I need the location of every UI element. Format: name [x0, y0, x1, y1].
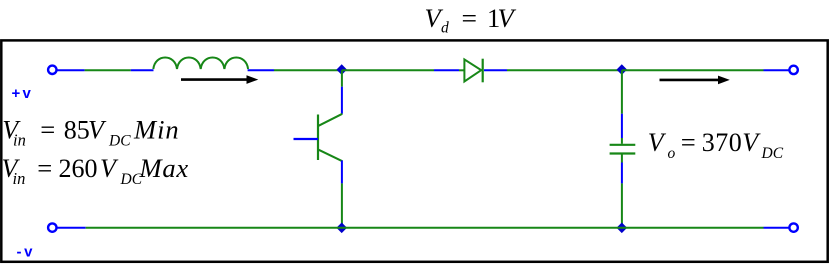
svg-text:Max: Max [139, 153, 190, 183]
inductor L1 [153, 57, 248, 69]
input terminal + (top-left) [48, 66, 56, 74]
output terminal + (top-right) [789, 66, 797, 74]
wire: inductor to node A [248, 69, 342, 71]
svg-text:85: 85 [64, 115, 90, 144]
capacitor C1 [610, 145, 636, 154]
current arrow (input) [181, 75, 258, 84]
output terminal - (bottom-right) [789, 223, 797, 231]
svg-text:-v: -v [17, 243, 36, 260]
svg-text:370: 370 [702, 128, 743, 157]
svg-text:o: o [668, 145, 676, 162]
svg-text:in: in [13, 169, 26, 188]
node A junction (top of transistor) [336, 64, 347, 75]
wire: node A down to transistor collector [341, 70, 343, 114]
wire: node A to diode anode [342, 69, 464, 71]
wire: transistor emitter down to node B [341, 161, 343, 228]
svg-text:Min: Min [133, 114, 180, 144]
svg-text:260: 260 [59, 154, 98, 183]
value label Vin = 260VDC Max [2, 153, 190, 188]
value label Vd = 1V [425, 3, 517, 37]
wire: transistor base lead [294, 138, 319, 140]
svg-text:DC: DC [108, 133, 131, 150]
value label Vo = 370VDC [648, 128, 784, 162]
svg-text:d: d [441, 20, 449, 37]
wire: bottom rail [58, 227, 789, 229]
node D junction (bottom of capacitor) [617, 223, 628, 234]
transistor Q1 (NPN) [318, 114, 342, 161]
wire: node C to output terminal [622, 69, 789, 71]
input terminal - (bottom-left) [48, 223, 56, 231]
diode D1 [464, 59, 482, 83]
svg-text:in: in [13, 131, 26, 150]
node B junction (bottom of transistor) [336, 223, 347, 234]
svg-text:=: = [40, 115, 55, 144]
svg-text:+v: +v [12, 85, 34, 102]
svg-text:V: V [742, 128, 761, 157]
svg-text:V: V [88, 115, 107, 144]
current arrow (output) [660, 76, 730, 85]
value label Vin = 85VDC Min [2, 114, 179, 149]
wire: capacitor down to node D [621, 154, 623, 228]
svg-text:V: V [100, 154, 119, 183]
svg-text:=: = [462, 3, 478, 33]
svg-text:V: V [648, 128, 667, 157]
node C junction (top of capacitor) [617, 64, 628, 75]
svg-text:=: = [37, 154, 52, 183]
svg-text:DC: DC [761, 145, 784, 162]
wire: input terminal to inductor (blue-green-blue) [58, 69, 154, 71]
svg-text:V: V [498, 3, 517, 33]
wire: diode cathode to node C [484, 69, 622, 71]
net label -v [17, 243, 36, 260]
svg-text:=: = [681, 128, 696, 157]
wire: node C down to capacitor [621, 70, 623, 144]
net label +v [12, 85, 34, 102]
